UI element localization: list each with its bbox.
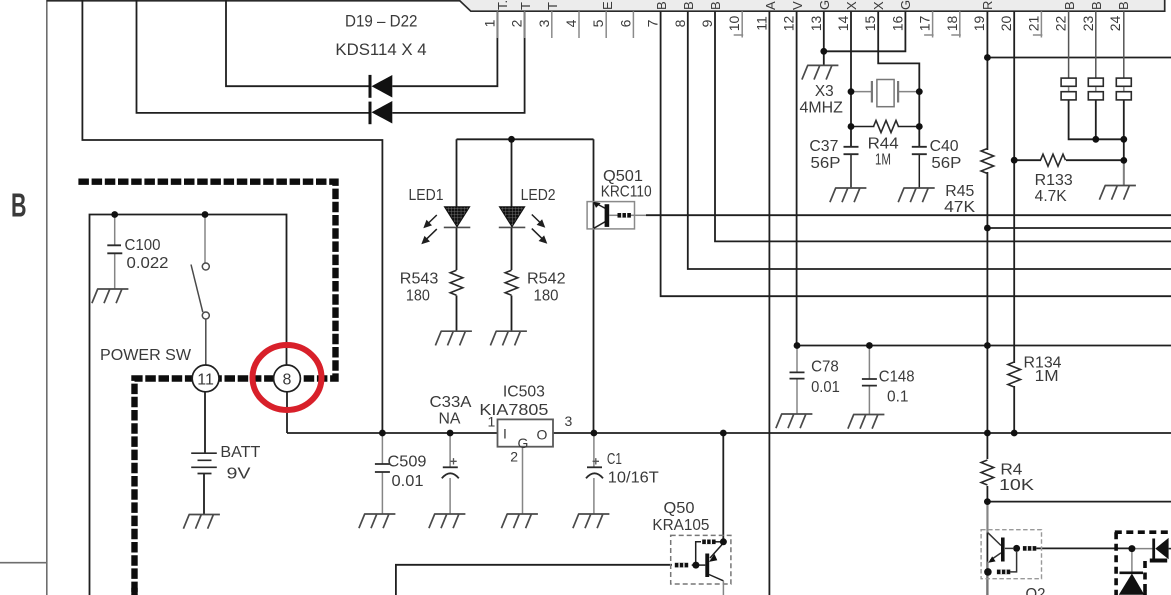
svg-text:1M: 1M [1035,368,1059,385]
svg-text:C40: C40 [930,138,959,155]
svg-text:0.01: 0.01 [392,473,424,490]
svg-text:23: 23 [1080,16,1096,32]
svg-text:B: B [1089,1,1104,10]
svg-text:0.01: 0.01 [811,379,840,396]
svg-text:9V: 9V [227,465,252,482]
svg-text:11: 11 [197,371,214,388]
svg-text:E: E [600,1,615,10]
svg-text:C78: C78 [811,359,839,376]
svg-text:IC503: IC503 [503,384,545,401]
svg-text:0.1: 0.1 [887,388,909,405]
svg-text:KRC110: KRC110 [601,183,652,200]
svg-text:C33A: C33A [430,394,473,411]
svg-text:Q50: Q50 [664,500,695,517]
svg-text:12: 12 [781,16,797,32]
svg-text:20: 20 [998,16,1014,32]
svg-text:C1: C1 [607,451,622,468]
svg-text:4MHZ: 4MHZ [800,100,843,117]
svg-text:BATT: BATT [220,444,261,461]
svg-text:8: 8 [672,19,688,27]
svg-text:56P: 56P [931,155,961,172]
svg-text:B: B [708,1,723,10]
svg-text:1: 1 [481,19,497,27]
svg-text:B: B [11,187,27,224]
svg-text:C509: C509 [388,454,427,471]
svg-text:47K: 47K [944,199,976,216]
svg-text:11: 11 [753,16,769,31]
svg-text:R133: R133 [1035,172,1073,189]
svg-text:G: G [518,435,529,451]
svg-text:C148: C148 [879,369,915,386]
svg-text:T.: T. [495,0,510,10]
svg-text:G: G [898,0,913,10]
svg-text:15: 15 [862,16,878,32]
svg-text:LED1: LED1 [409,187,444,204]
svg-text:3: 3 [565,413,573,429]
svg-text:R543: R543 [400,270,439,287]
svg-text:1: 1 [488,414,496,430]
svg-text:G: G [817,0,832,10]
svg-text:A: A [763,1,778,10]
svg-text:16: 16 [889,16,905,32]
svg-text:6: 6 [617,19,633,27]
svg-text:R542: R542 [527,270,566,287]
svg-text:0.022: 0.022 [127,255,169,272]
svg-text:C37: C37 [809,138,838,155]
svg-text:13: 13 [808,16,824,32]
svg-text:180: 180 [534,287,559,304]
svg-text:R4: R4 [1000,462,1022,479]
svg-text:10/16T: 10/16T [608,469,660,486]
svg-text:V: V [790,1,805,10]
svg-text:3: 3 [536,19,552,27]
svg-text:10: 10 [726,16,742,32]
svg-text:22: 22 [1053,16,1069,32]
svg-text:X: X [871,1,886,10]
svg-text:C100: C100 [125,237,161,254]
svg-text:18: 18 [944,16,960,32]
svg-text:17: 17 [917,16,933,32]
svg-text:19: 19 [971,16,987,32]
svg-text:2: 2 [509,19,525,27]
svg-text:R44: R44 [868,136,899,153]
svg-text:2: 2 [510,449,518,465]
svg-text:56P: 56P [811,155,841,172]
svg-text:D19 – D22: D19 – D22 [345,13,418,31]
svg-text:180: 180 [406,287,430,304]
svg-text:8: 8 [283,371,292,388]
svg-text:B: B [1062,1,1077,10]
svg-text:LED2: LED2 [521,187,556,204]
svg-text:B: B [1116,1,1131,10]
svg-text:NA: NA [439,410,462,427]
svg-text:7: 7 [645,19,661,27]
svg-text:14: 14 [835,16,851,32]
svg-text:Q2: Q2 [1026,586,1046,595]
svg-text:5: 5 [590,19,606,27]
svg-text:R: R [980,1,995,10]
svg-text:KDS114 X 4: KDS114 X 4 [335,41,426,59]
svg-text:9: 9 [699,19,715,27]
svg-text:B: B [654,1,669,10]
svg-text:KRA105: KRA105 [652,517,709,534]
svg-text:B: B [681,1,696,10]
svg-text:I: I [503,426,507,442]
svg-text:4.7K: 4.7K [1035,188,1068,205]
svg-text:POWER SW: POWER SW [100,347,191,364]
svg-text:T: T [545,2,560,10]
svg-text:1M: 1M [875,152,891,169]
svg-text:4: 4 [563,19,579,27]
svg-text:R45: R45 [945,183,974,200]
svg-text:X: X [844,1,859,10]
svg-text:24: 24 [1107,16,1123,32]
svg-text:O: O [537,427,548,443]
svg-text:X3: X3 [815,83,834,100]
svg-text:10K: 10K [999,477,1035,494]
svg-text:21: 21 [1025,16,1041,32]
svg-text:T: T [518,2,533,10]
